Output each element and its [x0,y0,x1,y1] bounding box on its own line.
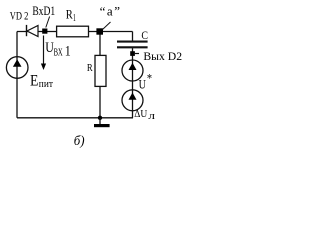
svg-text:E: E [30,73,38,90]
diode VD2 [27,25,39,37]
junction dot at ground node [98,116,102,120]
svg-text:Вых D2: Вых D2 [143,51,182,63]
svg-text:1: 1 [65,43,71,59]
leader tick to BxD1 label [46,17,50,28]
svg-text:ΔU: ΔU [134,108,147,120]
current source U* (upper circle) [122,60,143,81]
svg-text:“a”: “a” [100,4,121,19]
current source dUl (lower circle) [122,90,143,111]
wire right branch lower segment through sources [132,48,134,118]
node a (junction square) [96,28,103,34]
svg-text:R: R [87,63,93,74]
wire bottom horizontal [17,117,133,119]
leader tick to VyxD2 label [135,53,139,55]
wire right branch upper segment into capacitor [132,32,134,41]
svg-text:ВхD1: ВхD1 [32,4,55,18]
resistor R (vertical) [95,55,106,86]
ground [94,118,110,126]
arrow inside U* [129,63,137,70]
voltage arrow Uvx1 [41,36,46,71]
wire top horizontal from left corner to capacitor corner [17,31,133,33]
svg-text:R: R [66,7,73,22]
svg-text:U: U [139,76,147,91]
capacitor C plates [117,42,148,48]
resistor R1 [57,26,89,37]
svg-text:*: * [147,71,152,86]
svg-text:ВХ: ВХ [54,47,63,58]
arrow inside E pit [13,59,22,67]
svg-text:л: л [148,111,155,122]
leader tick to node a label [103,22,111,30]
node Vyx D2 (output square) [130,51,135,56]
svg-text:1: 1 [73,12,76,24]
arrow inside dUl [129,93,137,100]
svg-text:пит: пит [39,79,54,90]
wire left vertical branch [16,32,18,118]
wire middle vertical branch through resistor R [99,32,101,118]
svg-text:б): б) [74,134,85,149]
svg-text:VD 2: VD 2 [10,9,29,23]
svg-text:C: C [141,30,148,42]
current source E pit (circle with up arrow) [6,57,28,79]
node BxD1 (input D1 square) [42,29,47,34]
